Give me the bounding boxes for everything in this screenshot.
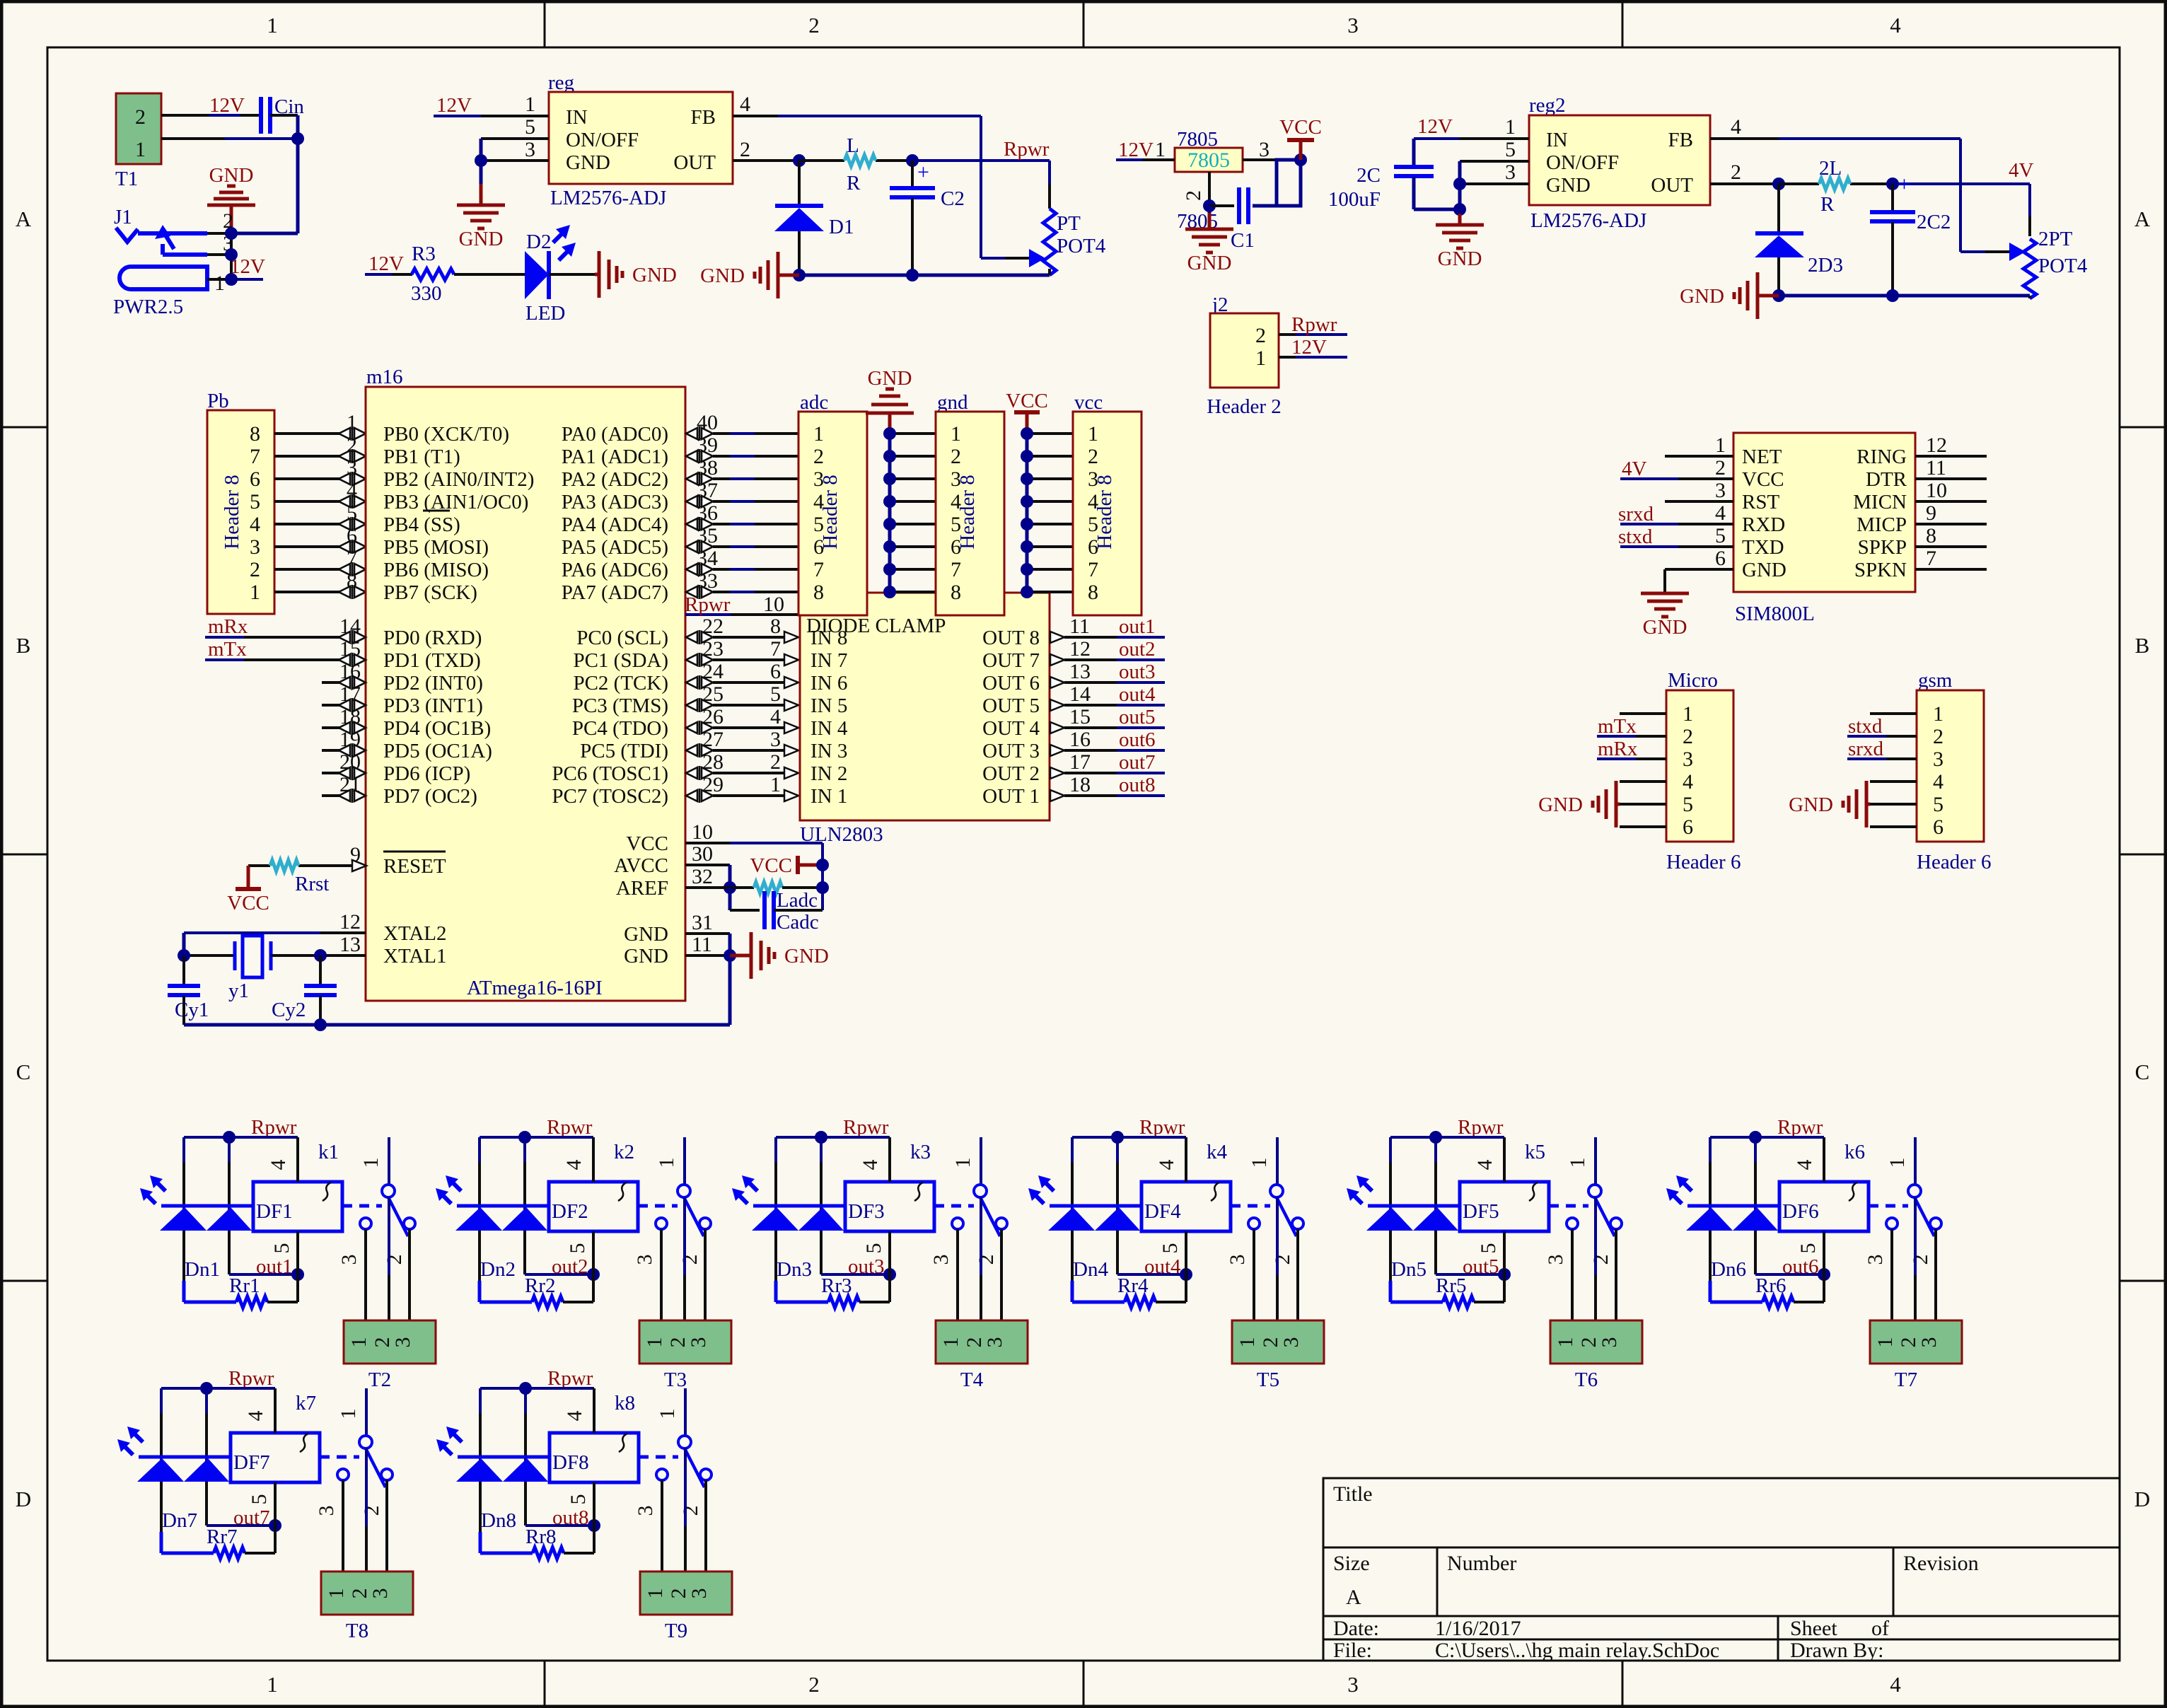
- svg-text:4: 4: [250, 513, 260, 536]
- wire out6 node: [1755, 1137, 1830, 1302]
- svg-text:40: 40: [697, 411, 718, 434]
- svg-text:LM2576-ADJ: LM2576-ADJ: [1530, 209, 1646, 232]
- svg-text:LED: LED: [525, 302, 565, 325]
- svg-text:1: 1: [325, 1588, 348, 1599]
- svg-text:POT4: POT4: [2038, 255, 2088, 277]
- svg-text:Rpwr: Rpwr: [228, 1367, 274, 1390]
- ground GND (reg2): [1436, 214, 1484, 270]
- svg-text:IN 3: IN 3: [811, 740, 847, 762]
- svg-text:3: 3: [687, 1337, 710, 1348]
- svg-text:1: 1: [643, 1337, 666, 1348]
- pin numbers J1 (2,3,1): [214, 209, 233, 295]
- svg-text:2: 2: [1683, 725, 1693, 748]
- pin numbers k4 switch (1,3,2): [1226, 1158, 1294, 1265]
- svg-text:PB1 (T1): PB1 (T1): [383, 446, 460, 468]
- net label 4V (SIM800L): [1622, 458, 1647, 480]
- svg-text:srxd: srxd: [1618, 503, 1654, 525]
- wire m16 GND pin11: [685, 933, 736, 1025]
- svg-text:C1: C1: [1231, 229, 1255, 252]
- svg-text:1: 1: [813, 422, 824, 446]
- svg-text:22: 22: [702, 615, 724, 638]
- svg-text:PD6 (ICP): PD6 (ICP): [383, 762, 470, 785]
- svg-text:DF8: DF8: [552, 1451, 589, 1474]
- svg-text:Dn8: Dn8: [481, 1509, 516, 1532]
- capacitor Cadc: [730, 888, 823, 934]
- svg-text:PA4 (ADC4): PA4 (ADC4): [562, 513, 668, 536]
- svg-text:6: 6: [250, 467, 260, 491]
- wire Micro pin3 mRx: [1597, 757, 1666, 760]
- svg-text:1: 1: [1715, 434, 1726, 457]
- svg-text:7: 7: [813, 558, 824, 581]
- wire vcc bus: [1021, 427, 1073, 598]
- svg-text:out8: out8: [1119, 774, 1156, 796]
- svg-text:4V: 4V: [2009, 159, 2034, 182]
- svg-text:14: 14: [1069, 682, 1091, 706]
- capacitor Cin: [261, 95, 304, 134]
- power port VCC (7805): [1279, 116, 1322, 160]
- svg-text:1: 1: [1554, 1337, 1577, 1348]
- svg-text:2: 2: [1933, 725, 1944, 748]
- dual LED Dn3: [732, 1175, 844, 1281]
- pin stubs m16 PD2-PD7: [322, 675, 366, 803]
- svg-text:PC0 (SCL): PC0 (SCL): [576, 627, 668, 649]
- svg-text:mTx: mTx: [208, 638, 247, 661]
- svg-text:Header 2: Header 2: [1207, 395, 1281, 418]
- svg-text:GND: GND: [624, 923, 668, 946]
- svg-text:PB4 (SS): PB4 (SS): [383, 513, 460, 536]
- svg-text:Header 8: Header 8: [819, 475, 842, 549]
- ground GND (gnd header bus): [866, 367, 914, 434]
- svg-text:SPKP: SPKP: [1858, 536, 1907, 559]
- wire SIM800L TXD stxd: [1620, 545, 1733, 548]
- svg-text:5: 5: [862, 1243, 885, 1254]
- svg-text:FB: FB: [1668, 129, 1693, 151]
- svg-text:4: 4: [770, 705, 781, 728]
- svg-text:12V: 12V: [436, 94, 472, 117]
- svg-text:3: 3: [1279, 1337, 1303, 1348]
- net label Rpwr (ULN supply): [685, 593, 731, 616]
- svg-text:Sheet: Sheet: [1790, 1617, 1837, 1640]
- svg-text:8: 8: [770, 615, 781, 638]
- svg-text:Revision: Revision: [1903, 1552, 1979, 1575]
- wire k5 coil supply: [1390, 1131, 1504, 1302]
- net label out8 (k8): [552, 1506, 589, 1529]
- svg-text:2: 2: [135, 105, 146, 129]
- wire out4 node: [1117, 1137, 1192, 1302]
- net label 12V (reg input): [436, 94, 472, 117]
- svg-text:TXD: TXD: [1742, 536, 1784, 559]
- svg-text:7: 7: [250, 445, 260, 468]
- svg-text:27: 27: [702, 728, 724, 751]
- svg-text:4: 4: [1155, 1160, 1178, 1170]
- svg-text:PA7 (ADC7): PA7 (ADC7): [562, 581, 668, 604]
- svg-text:5: 5: [567, 1494, 590, 1505]
- resistor Rr1: [184, 1274, 298, 1308]
- svg-text:1: 1: [1505, 115, 1516, 139]
- svg-text:11: 11: [1069, 615, 1090, 638]
- svg-text:2: 2: [679, 1506, 702, 1516]
- wires ULN outputs out1-out8: [1050, 632, 1165, 801]
- wire out8 node: [525, 1388, 600, 1553]
- pin 9 RESET wire and Rrst: [248, 843, 366, 871]
- wire 7805 GND pin2: [1203, 172, 1277, 212]
- wire 12V to R3: [365, 273, 412, 276]
- svg-text:2: 2: [975, 1255, 998, 1265]
- resistor Rr2: [480, 1274, 593, 1308]
- svg-text:out7: out7: [1119, 751, 1156, 774]
- net label 4V: [2009, 159, 2034, 182]
- net label 12V (J1): [230, 255, 265, 278]
- svg-text:stxd: stxd: [1848, 715, 1883, 738]
- wire j2 pin2 Rpwr: [1279, 333, 1347, 336]
- wire reg2 ON/OFF + GND: [1453, 161, 1529, 216]
- svg-text:GND: GND: [1187, 252, 1232, 274]
- pin numbers k5 switch (1,3,2): [1544, 1158, 1613, 1265]
- wires Micro stubs: [1620, 714, 1666, 827]
- capacitor C2: [890, 161, 965, 275]
- svg-text:T7: T7: [1895, 1369, 1917, 1391]
- svg-text:3: 3: [1864, 1255, 1887, 1265]
- svg-text:ATmega16-16PI: ATmega16-16PI: [467, 977, 603, 999]
- net label Rpwr (k4): [1139, 1116, 1185, 1139]
- svg-text:MICP: MICP: [1857, 513, 1907, 536]
- pin numbers m16 PA side (40-33): [697, 411, 718, 593]
- svg-text:PD0 (RXD): PD0 (RXD): [383, 627, 482, 649]
- svg-text:T4: T4: [960, 1369, 984, 1391]
- svg-text:PA1 (ADC1): PA1 (ADC1): [562, 446, 668, 468]
- svg-text:out3: out3: [1119, 661, 1156, 683]
- svg-text:T8: T8: [346, 1620, 368, 1642]
- svg-text:1: 1: [1248, 1158, 1271, 1168]
- svg-text:2D3: 2D3: [1808, 254, 1843, 277]
- svg-text:3: 3: [368, 1588, 392, 1599]
- wires k7 switch to T8: [343, 1448, 387, 1572]
- wires gsm stubs: [1870, 714, 1917, 827]
- wires m16 PD0 PD1 mRx mTx: [205, 630, 366, 667]
- relay coil DF2 k2: [549, 1141, 638, 1231]
- svg-text:gnd: gnd: [937, 391, 968, 414]
- svg-text:Title: Title: [1333, 1482, 1373, 1506]
- net label mTx: [208, 638, 247, 661]
- svg-text:12V: 12V: [368, 252, 404, 275]
- svg-text:D: D: [16, 1487, 31, 1511]
- svg-text:reg2: reg2: [1529, 94, 1566, 117]
- connector T8: [321, 1572, 413, 1642]
- svg-text:A: A: [1346, 1586, 1361, 1609]
- svg-text:15: 15: [1069, 705, 1091, 728]
- relay coil DF7 k7: [231, 1392, 320, 1482]
- resistor Rr8: [480, 1526, 594, 1559]
- pin numbers reg2 (1,5,3,4,2): [1505, 115, 1741, 184]
- svg-text:DF1: DF1: [256, 1200, 293, 1223]
- svg-text:GND: GND: [566, 151, 610, 174]
- svg-text:4: 4: [1473, 1160, 1497, 1170]
- wire Cin to J1 node: [161, 115, 298, 233]
- svg-text:NET: NET: [1742, 446, 1782, 468]
- svg-text:PB5 (MOSI): PB5 (MOSI): [383, 536, 489, 559]
- svg-text:IN 2: IN 2: [811, 762, 847, 785]
- relay coil DF5 k5: [1460, 1141, 1549, 1231]
- relay switch k6 contacts: [1869, 1137, 1941, 1236]
- wire k4 coil supply: [1072, 1131, 1186, 1302]
- svg-text:3: 3: [315, 1506, 338, 1516]
- wires k5 switch to T6: [1572, 1197, 1616, 1320]
- svg-text:2: 2: [808, 13, 820, 37]
- resistor Rr4: [1072, 1274, 1186, 1308]
- capacitor C1: [1231, 187, 1255, 252]
- svg-text:3: 3: [633, 1255, 656, 1265]
- svg-text:2: 2: [1731, 161, 1741, 184]
- svg-text:10: 10: [692, 820, 713, 844]
- svg-text:srxd: srxd: [1848, 738, 1883, 760]
- net label srxd (gsm): [1848, 738, 1883, 760]
- svg-text:3: 3: [983, 1337, 1006, 1348]
- ground GND (Micro): [1538, 781, 1620, 827]
- svg-text:Dn6: Dn6: [1711, 1258, 1746, 1281]
- svg-text:y1: y1: [228, 980, 249, 1002]
- inductor Ladc: [730, 881, 829, 912]
- svg-text:RST: RST: [1742, 491, 1779, 513]
- pin numbers ULN inputs (8-1): [770, 615, 781, 796]
- svg-text:2: 2: [740, 138, 750, 161]
- pin numbers k1 switch (1,3,2): [337, 1158, 406, 1265]
- svg-text:PB7 (SCK): PB7 (SCK): [383, 581, 477, 604]
- net label out3 (k3): [848, 1255, 885, 1278]
- svg-text:Pb: Pb: [207, 390, 229, 412]
- svg-text:Cy1: Cy1: [175, 999, 209, 1021]
- relay switch k4 contacts: [1231, 1137, 1303, 1236]
- svg-text:4: 4: [740, 93, 750, 116]
- ground GND (reg): [457, 184, 505, 250]
- svg-text:AREF: AREF: [616, 877, 668, 900]
- pin numbers DF1 (4,5): [267, 1160, 294, 1254]
- svg-text:Drawn By:: Drawn By:: [1790, 1639, 1883, 1662]
- svg-text:Rr2: Rr2: [525, 1274, 556, 1297]
- svg-text:DF6: DF6: [1782, 1200, 1819, 1223]
- svg-text:GND: GND: [1789, 794, 1833, 816]
- svg-text:1: 1: [951, 422, 961, 446]
- regulator 7805: [1175, 128, 1243, 172]
- svg-text:out2: out2: [552, 1255, 588, 1278]
- pin numbers SIM800L right (12-7): [1926, 434, 1947, 570]
- svg-text:Rpwr: Rpwr: [1458, 1116, 1504, 1139]
- svg-text:VCC: VCC: [1006, 390, 1048, 412]
- svg-text:m16: m16: [366, 366, 403, 388]
- svg-text:OUT 3: OUT 3: [982, 740, 1040, 762]
- pin numbers DF5 (4,5): [1473, 1160, 1500, 1254]
- pin numbers m16 PD side (14-21): [339, 615, 361, 796]
- net label out4 (k4): [1144, 1255, 1181, 1278]
- svg-text:3: 3: [1598, 1337, 1621, 1348]
- diode 2D3: [1755, 184, 1843, 296]
- svg-text:J1: J1: [114, 206, 132, 228]
- net label 12V (reg2): [1417, 115, 1453, 138]
- svg-text:2C2: 2C2: [1917, 211, 1951, 233]
- svg-text:5: 5: [250, 490, 260, 513]
- svg-text:PC7 (TOSC2): PC7 (TOSC2): [552, 785, 668, 808]
- capacitor Cy2: [272, 955, 337, 1025]
- connector T2: [344, 1320, 436, 1391]
- potentiometer PT POT4: [1029, 209, 1106, 275]
- connector adc Header 8: [798, 391, 867, 615]
- svg-text:PA3 (ADC3): PA3 (ADC3): [562, 491, 668, 513]
- svg-text:6: 6: [1715, 547, 1726, 570]
- svg-text:1: 1: [525, 93, 535, 116]
- inductor L value R (reg output): [844, 134, 876, 194]
- connector T5: [1232, 1320, 1324, 1391]
- svg-text:C: C: [2135, 1059, 2150, 1084]
- wires m16 PC to ULN inputs: [686, 630, 798, 803]
- wire 12V into reg2 pin1: [1414, 139, 1529, 167]
- svg-text:Rpwr: Rpwr: [251, 1116, 297, 1139]
- svg-text:Header 6: Header 6: [1666, 851, 1741, 873]
- svg-text:PC1 (SDA): PC1 (SDA): [573, 649, 668, 672]
- svg-text:T6: T6: [1575, 1369, 1598, 1391]
- relay coil DF1 k1: [253, 1141, 342, 1231]
- capacitor 2C 100uF: [1328, 164, 1460, 211]
- wire reg FB feedback net: [733, 116, 1029, 258]
- pin numbers k7 switch (1,3,2): [315, 1409, 383, 1516]
- wires k3 switch to T4: [958, 1197, 1001, 1320]
- svg-text:4: 4: [1683, 770, 1693, 794]
- svg-text:2: 2: [1182, 190, 1205, 201]
- svg-text:Rpwr: Rpwr: [547, 1367, 593, 1390]
- svg-text:Rpwr: Rpwr: [547, 1116, 593, 1139]
- svg-text:Rpwr: Rpwr: [1291, 313, 1337, 336]
- svg-text:R3: R3: [412, 243, 436, 265]
- svg-text:11: 11: [692, 933, 712, 956]
- resistor Rr5: [1390, 1274, 1504, 1308]
- power port VCC (m16): [750, 854, 829, 877]
- svg-text:DF5: DF5: [1463, 1200, 1499, 1223]
- ground GND (power input): [207, 164, 255, 233]
- connector T3: [639, 1320, 731, 1391]
- svg-text:1: 1: [1155, 138, 1166, 161]
- svg-text:13: 13: [1069, 660, 1091, 683]
- svg-text:4: 4: [859, 1160, 882, 1170]
- svg-text:1: 1: [770, 773, 781, 796]
- dual LED Dn6: [1666, 1175, 1778, 1281]
- connector gnd Header 8: [936, 391, 1004, 615]
- svg-text:6: 6: [1683, 815, 1693, 839]
- potentiometer 2PT POT4: [2009, 228, 2088, 298]
- svg-text:FB: FB: [691, 106, 716, 129]
- dual LED Dn8: [436, 1427, 548, 1532]
- svg-text:1: 1: [1236, 1337, 1259, 1348]
- svg-text:4: 4: [347, 479, 357, 502]
- wire reg OUT net: [733, 154, 1050, 209]
- svg-text:RXD: RXD: [1742, 513, 1785, 536]
- svg-text:GND: GND: [1742, 559, 1787, 581]
- svg-text:Rr8: Rr8: [525, 1526, 557, 1548]
- ground GND (m16): [730, 932, 829, 979]
- resistor Rr6: [1710, 1274, 1824, 1308]
- svg-text:23: 23: [702, 637, 724, 661]
- svg-text:A: A: [16, 207, 32, 231]
- svg-text:29: 29: [702, 773, 724, 796]
- net label 12V (LED): [368, 252, 404, 275]
- relay coil DF8 k8: [550, 1392, 639, 1482]
- dual LED Dn5: [1347, 1175, 1458, 1281]
- svg-text:1: 1: [939, 1337, 963, 1348]
- svg-text:1: 1: [347, 1337, 371, 1348]
- svg-text:RESET: RESET: [383, 855, 446, 878]
- svg-text:k5: k5: [1525, 1141, 1545, 1163]
- wire SIM800L GND pin6: [1665, 569, 1733, 593]
- wire Micro pin5 to ground: [1620, 803, 1666, 806]
- svg-text:1: 1: [135, 138, 146, 161]
- wire reg2 OUT net: [1710, 178, 2030, 236]
- svg-text:25: 25: [702, 682, 724, 706]
- svg-text:OUT 6: OUT 6: [982, 672, 1040, 695]
- svg-text:GND: GND: [632, 264, 677, 286]
- svg-text:POT4: POT4: [1057, 235, 1106, 257]
- pin numbers SIM800L left (1-6): [1715, 434, 1726, 570]
- relay switch k3 contacts: [934, 1137, 1007, 1236]
- wire R3 to D2: [454, 273, 525, 276]
- svg-text:28: 28: [702, 750, 724, 774]
- wires m16 PA to adc header: [686, 426, 798, 599]
- svg-text:5: 5: [1715, 524, 1726, 547]
- svg-text:out6: out6: [1782, 1255, 1819, 1278]
- svg-text:k8: k8: [615, 1392, 635, 1414]
- svg-text:34: 34: [697, 547, 718, 570]
- net label Rpwr (k2): [547, 1116, 593, 1139]
- net label out2 (k2): [552, 1255, 588, 1278]
- svg-text:Cadc: Cadc: [777, 911, 819, 934]
- wire m16 pin10 Rpwr to ULN COM: [685, 593, 800, 616]
- svg-text:1: 1: [1683, 702, 1693, 726]
- svg-text:RING: RING: [1857, 446, 1907, 468]
- svg-text:PD2 (INT0): PD2 (INT0): [383, 672, 483, 695]
- svg-text:GND: GND: [784, 945, 829, 968]
- svg-text:GND: GND: [1538, 794, 1583, 816]
- wire gnd bus: [883, 427, 936, 598]
- wire reg2 ground rail: [1772, 289, 2030, 302]
- svg-text:1: 1: [655, 1158, 678, 1168]
- wire gsm pin5 to ground: [1870, 803, 1917, 806]
- svg-text:Rpwr: Rpwr: [685, 593, 731, 616]
- svg-text:mRx: mRx: [208, 615, 248, 638]
- svg-text:7: 7: [1926, 547, 1936, 570]
- svg-text:38: 38: [697, 456, 718, 480]
- svg-text:Rpwr: Rpwr: [843, 1116, 889, 1139]
- net label Rpwr (k3): [843, 1116, 889, 1139]
- svg-text:2: 2: [770, 750, 781, 774]
- svg-text:5: 5: [770, 682, 781, 706]
- svg-text:39: 39: [697, 434, 718, 457]
- svg-text:12V: 12V: [1118, 139, 1154, 161]
- svg-text:File:: File:: [1333, 1639, 1372, 1662]
- pin numbers reg (1,5,3,4,2): [525, 93, 750, 161]
- svg-text:2: 2: [250, 558, 260, 581]
- svg-text:IN 1: IN 1: [811, 785, 847, 808]
- svg-text:2: 2: [360, 1506, 383, 1516]
- svg-text:ON/OFF: ON/OFF: [1546, 151, 1619, 174]
- pin numbers m16 PB side (1-8): [347, 411, 357, 593]
- wire SIM800L NET stub: [1665, 455, 1733, 458]
- svg-text:5: 5: [248, 1494, 271, 1505]
- pin numbers DF2 (4,5): [562, 1160, 589, 1254]
- wire J1 pin1 stub 12V: [231, 278, 263, 281]
- svg-text:18: 18: [1069, 773, 1091, 796]
- wire 12V into reg pin1: [434, 115, 549, 117]
- svg-text:4: 4: [563, 1411, 586, 1422]
- svg-text:Rrst: Rrst: [295, 873, 329, 895]
- svg-text:GND: GND: [1680, 285, 1724, 308]
- svg-text:DTR: DTR: [1866, 468, 1907, 491]
- svg-text:AVCC: AVCC: [614, 854, 668, 877]
